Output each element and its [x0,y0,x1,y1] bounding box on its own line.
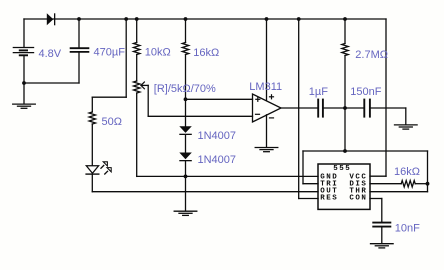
svg-text:10nF: 10nF [395,223,420,235]
svg-text:16kΩ: 16kΩ [394,166,420,178]
svg-text:150nF: 150nF [350,86,381,98]
svg-text:50Ω: 50Ω [102,116,122,128]
svg-text:[R]/5kΩ/70%: [R]/5kΩ/70% [154,83,216,95]
svg-text:470µF: 470µF [94,46,126,58]
svg-text:2.7MΩ: 2.7MΩ [355,49,388,61]
svg-text:RES: RES [320,195,338,203]
svg-text:10kΩ: 10kΩ [145,46,171,58]
svg-text:555: 555 [333,165,351,173]
svg-text:1N4007: 1N4007 [198,154,237,166]
svg-text:16kΩ: 16kΩ [193,47,219,59]
svg-text:4.8V: 4.8V [39,48,62,60]
svg-text:CON: CON [349,195,367,203]
svg-text:1N4007: 1N4007 [198,130,237,142]
svg-text:LM311: LM311 [249,81,282,93]
svg-text:1µF: 1µF [309,86,328,98]
